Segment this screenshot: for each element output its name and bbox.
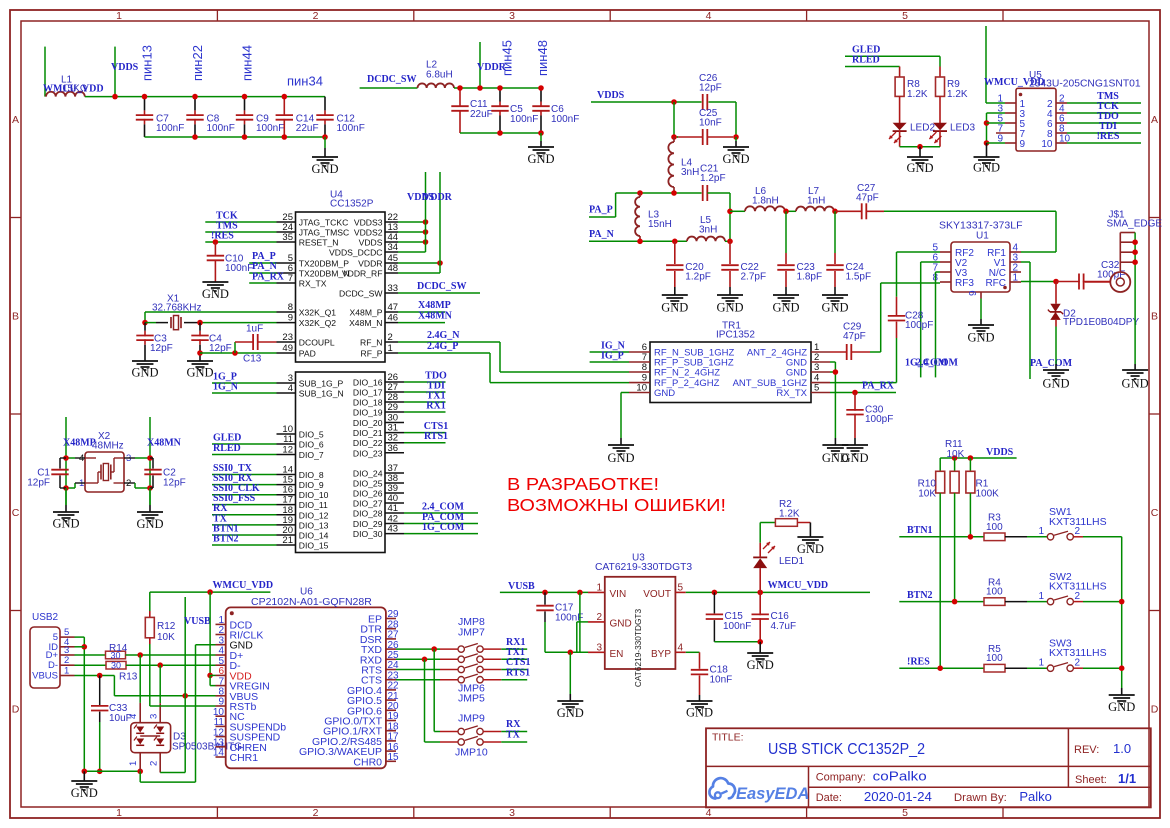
svg-text:VOUT: VOUT	[643, 589, 671, 600]
wire TR1 pin3	[830, 371, 835, 373]
svg-text:IG_P: IG_P	[601, 350, 624, 361]
pin 49 U4 PAD	[277, 343, 316, 359]
wire PA_P pin	[249, 262, 276, 264]
svg-text:GND: GND	[186, 366, 213, 380]
node X1 left	[142, 320, 148, 326]
wire VDDS flag	[114, 47, 116, 97]
pin 2 TR1 GND	[786, 352, 830, 369]
resistor R5	[984, 644, 1005, 672]
svg-text:GLED: GLED	[213, 432, 241, 443]
wire U3 gnd elbow	[577, 621, 588, 623]
wire L6-L7	[785, 210, 796, 212]
svg-text:2: 2	[313, 807, 319, 819]
svg-text:1.2pF: 1.2pF	[700, 173, 726, 184]
node WMCU-VDD branch	[207, 589, 213, 595]
node J$1 pin3	[1132, 249, 1138, 255]
wire VDDS vertical	[425, 172, 427, 252]
svg-text:VUSB: VUSB	[184, 616, 211, 627]
svg-text:C13: C13	[243, 354, 262, 365]
ground GND1	[311, 157, 338, 176]
pin 8 U1 RF3	[932, 273, 974, 289]
svg-text:GND: GND	[52, 517, 79, 531]
node R1 bottom	[968, 534, 974, 540]
wire RLED U4	[212, 454, 277, 456]
wire TDO U4	[404, 381, 446, 383]
svg-text:B: B	[12, 311, 19, 323]
svg-text:!RES: !RES	[1097, 131, 1120, 142]
svg-text:GND: GND	[772, 301, 799, 315]
node X1 right	[197, 320, 203, 326]
node VDDS-flag junction	[112, 94, 118, 100]
svg-text:100nF: 100nF	[723, 621, 751, 632]
svg-text:VDDS: VDDS	[986, 447, 1014, 458]
node X2 pin1	[63, 485, 69, 491]
node C20 top	[672, 239, 678, 245]
pin 15 U4 DIO_9	[277, 475, 324, 491]
svg-text:9: 9	[288, 313, 293, 324]
node C9 bottom	[242, 134, 248, 140]
node C17 top	[542, 590, 548, 596]
svg-text:100nF: 100nF	[225, 263, 253, 274]
svg-text:21: 21	[282, 535, 293, 546]
pin 21 U6 GPIO.5	[347, 691, 399, 707]
svg-text:EN: EN	[610, 649, 624, 660]
capacitor C16	[752, 592, 797, 641]
wire SSI0_TX U4	[212, 474, 277, 476]
svg-text:15KΩ: 15KΩ	[62, 84, 88, 95]
svg-text:10K: 10K	[918, 488, 936, 499]
node J$1 pin4	[1132, 259, 1138, 265]
wire D3 pin3	[159, 665, 161, 703]
wire btn gnd vertical	[1121, 537, 1123, 688]
node C33 bottom	[97, 769, 103, 775]
wire BTN1	[899, 536, 984, 538]
wire RFC	[1021, 281, 1056, 283]
pin 32 U4 DIO_22	[353, 433, 404, 449]
node D3 pin1 junction	[137, 769, 143, 775]
wire L4 top lead	[673, 137, 675, 142]
svg-text:RX1: RX1	[426, 400, 445, 411]
wire TMS	[205, 231, 276, 233]
svg-text:WMCU_VDD: WMCU_VDD	[213, 580, 274, 591]
svg-text:DIO_9: DIO_9	[299, 480, 324, 490]
node L6 branch	[727, 209, 733, 215]
pin2 X2 wire	[124, 482, 135, 484]
svg-text:DCOUPL: DCOUPL	[299, 338, 335, 348]
svg-text:2343U-205CNG1SNT01: 2343U-205CNG1SNT01	[1029, 79, 1141, 90]
switch SW2	[1039, 571, 1107, 605]
wire to GND3	[735, 137, 737, 141]
ground C4	[186, 361, 213, 380]
svg-text:DIO_10: DIO_10	[299, 490, 329, 500]
pin 4 U6 D+	[216, 646, 244, 662]
svg-text:DIO_28: DIO_28	[353, 509, 383, 519]
capacitor C3	[136, 323, 172, 361]
capacitor C29	[830, 321, 881, 360]
svg-text:30: 30	[110, 650, 120, 660]
wire PA_COM U4	[404, 523, 478, 525]
node C11 top	[457, 85, 463, 91]
node R11 bottom	[952, 599, 958, 605]
pin 17 U6 GPIO.2/RS485	[312, 732, 399, 748]
svg-text:12pF: 12pF	[150, 343, 173, 354]
svg-text:RLED: RLED	[852, 55, 880, 66]
pin 2 U1 N/C	[989, 263, 1021, 279]
node VUSB-VBUS	[182, 693, 188, 699]
pin 31 U4 DIO_21	[353, 423, 404, 439]
pin 27 U6 DSR	[360, 630, 399, 646]
svg-text:15: 15	[388, 752, 400, 763]
capacitor C27	[856, 183, 879, 220]
pin 23 U4 DCOUPL	[277, 332, 335, 348]
ground U3	[557, 701, 584, 720]
wire C27 left lead	[835, 210, 863, 212]
node C12 bottom	[322, 134, 328, 140]
wire D- mid	[126, 664, 216, 666]
wire RFC to D2	[1055, 282, 1057, 304]
node C14 bottom	[282, 134, 288, 140]
svg-text:X48MP: X48MP	[63, 437, 96, 448]
svg-text:DIO_6: DIO_6	[299, 440, 324, 450]
wire RX_TX	[830, 392, 896, 394]
ground C2	[136, 512, 163, 531]
svg-text:2020-01-24: 2020-01-24	[864, 789, 932, 804]
svg-text:7: 7	[288, 273, 293, 284]
wire C13 elbow	[234, 342, 236, 353]
svg-text:R12: R12	[157, 621, 176, 632]
wire IG_P	[590, 361, 629, 363]
wire V2 down	[921, 261, 940, 263]
svg-text:RESET_N: RESET_N	[299, 238, 339, 248]
svg-text:9: 9	[1020, 139, 1026, 150]
wire VUSB vertical	[184, 597, 186, 773]
pin 40 U4 DIO_27	[353, 493, 404, 509]
wire VDDS3	[398, 221, 426, 223]
svg-text:GND: GND	[686, 706, 713, 720]
svg-text:GND: GND	[71, 786, 98, 800]
capacitor C2	[144, 458, 185, 488]
pin 5 U6 D-	[216, 656, 242, 672]
wire L3 leads	[639, 193, 641, 197]
ground TR1	[607, 445, 634, 465]
svg-text:GND: GND	[607, 451, 634, 465]
pin 18 U6 GPIO.1/RXT	[323, 721, 399, 737]
svg-text:2.4_COM: 2.4_COM	[422, 501, 465, 512]
svg-text:PA_P: PA_P	[589, 205, 613, 216]
svg-text:DIO_21: DIO_21	[353, 428, 383, 438]
svg-text:SUB_1G_N: SUB_1G_N	[299, 389, 344, 399]
wire VDDS rail	[85, 96, 325, 98]
pin 8 U6 VBUS	[216, 687, 259, 703]
svg-text:VDDS3: VDDS3	[354, 218, 383, 228]
svg-text:1.2K: 1.2K	[907, 89, 928, 100]
pin 24 U6 RTS	[361, 660, 399, 676]
wire VDDR45	[398, 262, 440, 264]
svg-text:100pF: 100pF	[865, 414, 893, 425]
pin 14 U6 CHR1	[213, 748, 258, 764]
pin 12 U4 DIO_7	[277, 445, 324, 461]
svg-text:14: 14	[213, 748, 225, 759]
wire VDD pin6	[210, 674, 215, 676]
node L5 right	[727, 239, 733, 245]
svg-text:R13: R13	[119, 671, 138, 682]
wire VDDS_DCDC	[398, 251, 426, 253]
capacitor C8	[186, 97, 235, 137]
svg-text:DIO_8: DIO_8	[299, 470, 324, 480]
svg-text:DIO_18: DIO_18	[353, 398, 383, 408]
capacitor C6	[532, 88, 579, 133]
wire 1G_N U4	[212, 392, 277, 394]
svg-text:A: A	[1151, 114, 1158, 126]
jumper switch row TX1	[458, 654, 483, 663]
pin 14 U4 DIO_8	[277, 465, 324, 481]
svg-text:SUB_1G_P: SUB_1G_P	[299, 379, 344, 389]
wire R2 gnd	[797, 522, 810, 524]
pin 22 U4 VDDS3	[354, 212, 398, 228]
node C10 top	[213, 239, 219, 245]
pin 9 U4 X32K_Q2	[277, 313, 337, 329]
wire C17 to EN rail	[545, 651, 570, 653]
svg-text:RTS1: RTS1	[506, 667, 530, 678]
capacitor C21	[700, 163, 726, 201]
svg-text:4.7uF: 4.7uF	[771, 621, 797, 632]
svg-text:35: 35	[282, 232, 293, 243]
svg-text:DCDC_SW: DCDC_SW	[417, 281, 466, 292]
pin 3 U6 GND	[216, 635, 254, 651]
svg-text:15nH: 15nH	[648, 219, 672, 230]
svg-text:2.7pF: 2.7pF	[741, 271, 767, 282]
node LED gnd	[917, 144, 923, 150]
pin 9 TR1 RF_P_2_4GHZ	[629, 373, 720, 390]
wire VDDR flag stub	[479, 42, 481, 88]
pin 22 U6 GPIO.4	[347, 681, 399, 697]
node EN rail	[568, 650, 574, 656]
node TXD branch	[431, 646, 437, 652]
wire DCDC_SW	[360, 87, 418, 89]
node R1 top	[968, 455, 974, 461]
svg-text:10: 10	[636, 383, 647, 394]
wire PAD	[200, 352, 277, 354]
capacitor C33	[91, 676, 132, 772]
pin 5 U5	[997, 114, 1025, 130]
wire RLED	[845, 66, 900, 68]
pin 10 TR1 GND	[629, 383, 675, 400]
node C23 top	[783, 209, 789, 215]
svg-text:WMCU_VDD: WMCU_VDD	[768, 580, 829, 591]
svg-text:DIO_27: DIO_27	[353, 499, 383, 509]
node RXD branch	[422, 657, 428, 663]
svg-text:47: 47	[388, 302, 399, 313]
pin 11 U6 SUSPENDb	[214, 717, 287, 733]
resistor R4	[984, 577, 1005, 605]
svg-text:A: A	[12, 114, 19, 126]
wire C15C16 rail	[714, 641, 760, 643]
node U5 pin5	[984, 120, 990, 126]
node C25 right	[733, 134, 739, 140]
pin 33 U4 DCDC_SW	[339, 283, 398, 299]
node VDDS3	[423, 219, 429, 225]
wire D2 to gnd	[1055, 320, 1057, 327]
svg-text:VDDR: VDDR	[358, 259, 382, 269]
resistor R8	[895, 67, 928, 100]
pin 46 U4 X48M_N	[349, 313, 398, 329]
wire VDDS2	[398, 231, 426, 233]
svg-text:2.4G_N: 2.4G_N	[427, 330, 460, 341]
wire X48MN	[398, 322, 445, 324]
pin 4 U1 RF1	[987, 243, 1021, 259]
wire RTS1 out	[483, 679, 501, 681]
svg-text:32.768KHz: 32.768KHz	[152, 303, 201, 314]
wire VDD elbow	[209, 592, 211, 675]
svg-text:CC1352P: CC1352P	[330, 199, 374, 210]
svg-text:100: 100	[986, 653, 1003, 664]
capacitor C17	[536, 592, 583, 652]
wire BTN2	[899, 601, 984, 603]
pin 3 U5	[997, 104, 1025, 120]
svg-text:BTN2: BTN2	[907, 590, 933, 601]
capacitor C12	[316, 97, 365, 137]
svg-text:JMP10: JMP10	[455, 747, 488, 759]
svg-text:2: 2	[313, 10, 319, 22]
regulator U3	[595, 552, 692, 687]
wire C16 gnd lead	[759, 642, 761, 653]
svg-text:GND: GND	[527, 152, 554, 166]
ground for C20	[661, 295, 688, 315]
wire VUSB u3	[500, 591, 588, 593]
svg-text:PA_RX: PA_RX	[252, 272, 285, 283]
svg-text:EasyEDA: EasyEDA	[736, 785, 809, 803]
svg-text:U1: U1	[976, 230, 989, 241]
wire VOUT rail	[686, 591, 870, 593]
svg-text:пин22: пин22	[190, 45, 205, 81]
pin 2 U3 GND	[588, 612, 632, 630]
wire C25 left	[674, 136, 678, 138]
svg-text:3: 3	[596, 642, 602, 653]
pin 12 U6 SUSPEND	[213, 727, 281, 743]
svg-text:GND: GND	[557, 706, 584, 720]
svg-text:41: 41	[388, 503, 399, 514]
wire TX1 U4	[404, 401, 446, 403]
pin 29 U6 EP	[368, 609, 399, 625]
svg-text:TITLE:: TITLE:	[712, 732, 744, 744]
svg-text:TX20DBM_P: TX20DBM_P	[299, 259, 349, 269]
ground buttons	[1108, 695, 1135, 714]
wire usb gnd lead	[83, 771, 85, 781]
capacitor C22	[721, 241, 766, 295]
svg-text:PA_N: PA_N	[252, 261, 278, 272]
wire VREGIN elbow	[209, 675, 211, 685]
wire C1 gnd lead	[65, 488, 67, 505]
ground U5	[973, 157, 1000, 175]
wire U5 pin5	[987, 122, 1006, 124]
tvs array D3	[131, 723, 242, 753]
capacitor C15	[706, 592, 752, 641]
capacitor C1	[27, 458, 68, 488]
pin 3 U1 V1	[994, 253, 1021, 269]
pin 5 U4 TX20DBM_P	[277, 253, 350, 269]
pin 30 U4 DIO_20	[353, 413, 404, 429]
svg-text:4: 4	[706, 10, 712, 22]
node J$1 pin2	[1132, 239, 1138, 245]
wire D- left	[75, 664, 107, 666]
ground D2	[1042, 370, 1069, 391]
pin 7 TR1 RF_P_SUB_1GHZ	[629, 352, 734, 369]
svg-text:X48MN: X48MN	[418, 311, 453, 322]
svg-text:1: 1	[116, 807, 122, 819]
svg-text:DCDC_SW: DCDC_SW	[367, 74, 416, 85]
node C15 top	[712, 590, 718, 596]
pin 21 U4 DIO_15	[277, 535, 329, 551]
pin 37 U4 DIO_24	[353, 463, 404, 479]
wire TXD to JMP9	[433, 649, 435, 731]
node C5 top	[497, 85, 503, 91]
svg-text:GND: GND	[136, 517, 163, 531]
svg-text:RF_N: RF_N	[360, 338, 382, 348]
wire TR1 pin2 gnd	[830, 361, 835, 363]
ground C3	[131, 361, 158, 380]
svg-text:CAT6219-330TDGT3: CAT6219-330TDGT3	[595, 562, 692, 573]
pin 47 U4 X48M_P	[350, 302, 399, 318]
svg-text:3: 3	[509, 807, 515, 819]
svg-text:Sheet:: Sheet:	[1075, 774, 1107, 786]
wire 1G_COM U4	[404, 533, 478, 535]
pin 45 U4 VDDR	[358, 253, 398, 269]
pin 39 U4 DIO_26	[353, 483, 404, 499]
svg-text:100K: 100K	[976, 488, 1000, 499]
svg-text:29: 29	[388, 402, 399, 413]
pin 3 U4 SUB_1G_P	[277, 373, 344, 389]
node D+ branch	[137, 652, 143, 658]
svg-text:coPalko: coPalko	[873, 769, 927, 784]
svg-text:Palko: Palko	[1019, 789, 1052, 804]
svg-text:KXT311LHS: KXT311LHS	[1049, 516, 1107, 528]
jumper switch JMP9	[458, 726, 483, 735]
svg-text:USB STICK CC1352P_2: USB STICK CC1352P_2	[768, 741, 925, 758]
svg-text:36: 36	[388, 443, 399, 454]
svg-text:GND: GND	[797, 542, 824, 556]
svg-text:X32K_Q2: X32K_Q2	[299, 318, 336, 328]
svg-text:2: 2	[149, 761, 160, 766]
wire C27 to RF1	[866, 210, 885, 212]
node C24 top	[832, 209, 838, 215]
resistor R9	[936, 67, 968, 100]
wire RF1 to C27	[1021, 251, 1056, 253]
wire to GND1	[324, 137, 326, 148]
svg-text:12pF: 12pF	[699, 83, 722, 94]
pin 3 U3 EN	[588, 642, 623, 660]
wire D3 pin2 lead	[159, 753, 161, 773]
node C26 left	[671, 99, 677, 105]
pin 2 U5	[1047, 94, 1067, 110]
wire LED gnd lead	[919, 147, 921, 157]
pin 3 USB2 D+	[46, 645, 75, 661]
node X2 pin4	[63, 455, 69, 461]
svg-text:RF_N_2_4GHZ: RF_N_2_4GHZ	[654, 368, 720, 379]
wire TDI U4	[404, 391, 446, 393]
svg-text:VDDS: VDDS	[359, 238, 383, 248]
svg-text:GND: GND	[747, 658, 774, 672]
wire D3 pin1 lead	[139, 753, 141, 772]
logo EasyEDA	[709, 778, 809, 803]
svg-text:CP2102N-A01-GQFN28R: CP2102N-A01-GQFN28R	[251, 596, 372, 608]
node RFC	[1053, 279, 1059, 285]
tvs diode D2	[1048, 304, 1140, 328]
wire WMCU_VDD to U5	[985, 26, 987, 103]
pin 1 U5	[997, 94, 1025, 110]
svg-text:DIO_22: DIO_22	[353, 438, 383, 448]
wire to GND2	[540, 133, 542, 141]
inductor L6	[745, 186, 785, 211]
